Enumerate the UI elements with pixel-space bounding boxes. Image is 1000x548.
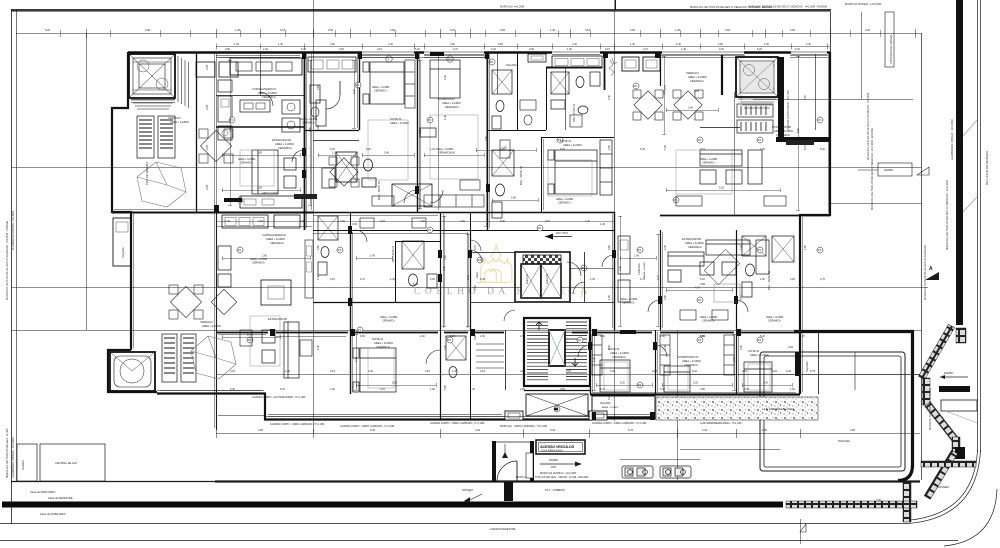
svg-text:1,60: 1,60 [444, 345, 447, 350]
svg-text:PASSEIO: PASSEIO [462, 488, 473, 492]
svg-text:0,15: 0,15 [330, 278, 335, 281]
chain band bottom [786, 501, 917, 508]
svg-text:P4: P4 [674, 198, 678, 202]
svg-text:5,20: 5,20 [415, 48, 420, 51]
svg-text:5,20: 5,20 [692, 369, 698, 373]
svg-text:P4: P4 [578, 338, 582, 342]
svg-text:CERAMICA: CERAMICA [690, 79, 704, 83]
chain vert 1 [922, 378, 930, 405]
svg-text:1,40: 1,40 [470, 388, 475, 391]
svg-text:25%: 25% [551, 465, 557, 469]
svg-text:5,20: 5,20 [772, 369, 778, 373]
svg-text:MURO ALV. DE TIJOLOS DE GES C/: MURO ALV. DE TIJOLOS DE GES C/ VEDACAO [924, 245, 927, 300]
jacuzzi A [129, 54, 175, 109]
svg-text:GUIA REBAIXADA: GUIA REBAIXADA [541, 449, 563, 453]
svg-text:ESTAR/JANTAR: ESTAR/JANTAR [682, 237, 701, 241]
stairs [524, 318, 590, 416]
svg-text:2,40: 2,40 [664, 245, 667, 250]
svg-text:1,60: 1,60 [567, 48, 572, 51]
svg-text:MURO DA VIZINHO - H=2,20M: MURO DA VIZINHO - H=2,20M [540, 471, 576, 475]
AC band A [294, 194, 317, 199]
vertical text box top right [885, 12, 894, 67]
svg-text:3,20: 3,20 [353, 89, 356, 94]
extra door arcs [355, 230, 367, 242]
svg-text:A: A [929, 266, 933, 272]
lixeira box [17, 444, 37, 481]
svg-text:TERRACO: TERRACO [686, 71, 699, 75]
car 2 [660, 466, 691, 478]
svg-text:3,40: 3,40 [475, 428, 481, 432]
svg-text:MURO ALV. DE TIJOLOS DE GES C/: MURO ALV. DE TIJOLOS DE GES C/ VEDACAO -… [945, 180, 949, 250]
svg-text:2,40: 2,40 [247, 334, 252, 337]
svg-text:5,20: 5,20 [491, 48, 496, 51]
svg-text:3,60: 3,60 [450, 152, 455, 155]
svg-text:GUARDA CORPO - ALV/TRAD/VIDRO: GUARDA CORPO - ALV/TRAD/VIDRO - H=1,10M [252, 396, 305, 399]
svg-text:3,40: 3,40 [688, 107, 693, 110]
thick wall x720 [721, 55, 723, 95]
svg-text:2,40: 2,40 [390, 278, 395, 281]
svg-text:2,80: 2,80 [520, 388, 525, 391]
svg-text:WC SUITE 01: WC SUITE 01 [391, 245, 395, 262]
svg-text:3,60: 3,60 [502, 147, 507, 150]
svg-text:0,15: 0,15 [230, 369, 236, 373]
svg-text:1,40: 1,40 [225, 220, 230, 223]
svg-text:5,40: 5,40 [480, 278, 485, 281]
black bar rampa [939, 386, 970, 392]
svg-text:MURO DA VIZINHO - H=2,20M: MURO DA VIZINHO - H=2,20M [845, 2, 881, 6]
svg-text:1,40: 1,40 [660, 335, 665, 338]
svg-text:SACADA: SACADA [506, 63, 517, 67]
dining set A [199, 129, 233, 163]
svg-text:ALAMBRADO VIZINHO - H=1,80M: ALAMBRADO VIZINHO - H=1,80M [950, 120, 954, 160]
svg-text:5,40: 5,40 [660, 388, 665, 391]
svg-text:COZINHA/SERVICO: COZINHA/SERVICO [262, 233, 286, 237]
svg-text:0,15: 0,15 [585, 28, 591, 32]
svg-text:0,15: 0,15 [700, 148, 705, 151]
svg-text:1,60: 1,60 [760, 148, 765, 151]
svg-text:3,40: 3,40 [619, 266, 622, 271]
section line v800 bottom [800, 519, 802, 544]
chain diag 2 [925, 402, 959, 443]
svg-text:0,15: 0,15 [425, 369, 431, 373]
svg-text:CERAMICA: CERAMICA [438, 152, 451, 155]
svg-text:P4: P4 [238, 248, 242, 252]
svg-text:CERAMICA: CERAMICA [270, 241, 284, 245]
svg-text:0,15: 0,15 [652, 369, 658, 373]
svg-text:BAC - SUITE 02: BAC - SUITE 02 [519, 166, 523, 185]
svg-text:AREA + ILUMIN.: AREA + ILUMIN. [170, 120, 190, 124]
svg-text:1,60: 1,60 [257, 187, 262, 190]
svg-text:P4: P4 [758, 338, 762, 342]
svg-text:1,60: 1,60 [804, 245, 807, 250]
bath D wall [350, 212, 352, 230]
svg-text:AREA + ILUMIN.: AREA + ILUMIN. [202, 324, 222, 328]
svg-text:0,15: 0,15 [742, 369, 748, 373]
svg-text:1,40: 1,40 [600, 222, 606, 226]
svg-text:1,40: 1,40 [234, 43, 239, 46]
svg-text:LAJE IMPERMEABILIZADA - H=1,10: LAJE IMPERMEABILIZADA - H=1,10M [700, 422, 742, 425]
svg-text:1,60: 1,60 [430, 388, 435, 391]
svg-text:0,15: 0,15 [380, 388, 385, 391]
left wall jogs [112, 52, 131, 350]
svg-text:2,40: 2,40 [263, 48, 268, 51]
black square [955, 447, 965, 459]
svg-text:P4: P4 [634, 84, 638, 88]
svg-text:0,15: 0,15 [377, 48, 382, 51]
section flag bottom [800, 524, 806, 532]
svg-text:0,15: 0,15 [605, 48, 610, 51]
svg-text:3,40: 3,40 [355, 357, 358, 362]
svg-text:BAC - SUITE 01: BAC - SUITE 01 [573, 103, 576, 122]
svg-text:1,60: 1,60 [330, 388, 335, 391]
svg-text:3,60: 3,60 [328, 28, 334, 32]
svg-text:3,60: 3,60 [663, 90, 666, 95]
svg-text:3,60: 3,60 [330, 43, 335, 46]
terrace walls [794, 330, 913, 333]
svg-text:CERAMICA: CERAMICA [622, 302, 635, 305]
svg-text:0,60: 0,60 [258, 220, 263, 223]
svg-text:ELEV.02: ELEV.02 [545, 273, 549, 284]
left balcony strip [113, 218, 131, 266]
balcony bottom center [592, 396, 655, 419]
svg-text:1,60: 1,60 [520, 335, 525, 338]
svg-text:AREA + ILUMIN.: AREA + ILUMIN. [442, 101, 462, 105]
svg-text:3,60: 3,60 [390, 28, 396, 32]
svg-text:MURO ALV. DE TIJOLOS DE GES C/: MURO ALV. DE TIJOLOS DE GES C/ VEDACAO -… [867, 93, 870, 160]
svg-text:ARCO COND: ARCO COND [296, 196, 310, 199]
top neighbour text [690, 2, 881, 9]
svg-text:AREA + ILUMIN.: AREA + ILUMIN. [374, 341, 394, 345]
svg-text:5,40: 5,40 [640, 148, 645, 151]
svg-text:0,60: 0,60 [360, 335, 365, 338]
svg-text:SUITE 01: SUITE 01 [372, 337, 384, 341]
shower bac suite01 A [336, 152, 376, 187]
wall y302 left [313, 302, 440, 304]
chain diag 3 [924, 450, 957, 499]
svg-text:SACADA: SACADA [600, 401, 611, 405]
door arc [292, 150, 304, 162]
svg-text:AREA + ILUMIN.: AREA + ILUMIN. [610, 351, 630, 355]
svg-text:5,40: 5,40 [301, 48, 306, 51]
north arrow [545, 236, 572, 238]
svg-text:P4: P4 [818, 248, 822, 252]
svg-text:MURO ALV - VIDRO LAMINADO - H=: MURO ALV - VIDRO LAMINADO - H=1,10M [500, 425, 547, 428]
svg-text:3,40: 3,40 [388, 43, 393, 46]
svg-text:4,70: 4,70 [800, 335, 805, 338]
svg-text:0,15: 0,15 [740, 295, 743, 300]
interior dim line y374 [216, 374, 920, 376]
svg-text:AREA + ILUMIN.: AREA + ILUMIN. [563, 143, 583, 147]
svg-text:SUITE 02: SUITE 02 [748, 349, 760, 353]
circled refs [386, 56, 392, 62]
svg-text:HALL: HALL [475, 271, 479, 278]
wall y241 wc [395, 241, 440, 243]
svg-text:P4: P4 [428, 228, 432, 232]
bath B2 fixtures [551, 72, 600, 114]
deck stipple [656, 397, 818, 420]
svg-text:P4: P4 [698, 338, 702, 342]
svg-text:1,40: 1,40 [681, 48, 686, 51]
svg-text:4,20: 4,20 [786, 369, 792, 373]
internal dim lines [222, 155, 300, 157]
svg-text:4,70: 4,70 [640, 278, 645, 281]
suite B center bed [548, 140, 612, 195]
street corner arc [908, 450, 981, 524]
loungers C [737, 104, 773, 133]
svg-text:5,40: 5,40 [740, 245, 743, 250]
svg-text:MURO ALV. DE TIJOLOS DE GES C/: MURO ALV. DE TIJOLOS DE GES C/ VEDACAO -… [870, 128, 874, 210]
gate pillar [504, 482, 513, 501]
svg-text:1,40: 1,40 [630, 43, 635, 46]
bed dorm A [430, 60, 460, 98]
svg-text:CERAMICA: CERAMICA [252, 262, 265, 265]
car 1 [622, 466, 653, 478]
frames boxes [622, 57, 639, 71]
svg-text:5,40: 5,40 [500, 220, 505, 223]
lower terrace D [110, 352, 155, 391]
svg-text:AREA + ILUMIN.: AREA + ILUMIN. [266, 237, 286, 241]
section line h287 [11, 287, 928, 289]
wall y212 extension [313, 212, 614, 214]
svg-text:3,40: 3,40 [593, 357, 596, 362]
svg-text:CERAMICA: CERAMICA [445, 105, 459, 109]
svg-text:CERAMICA: CERAMICA [374, 90, 387, 93]
svg-text:2,80: 2,80 [744, 388, 749, 391]
svg-text:P4: P4 [338, 248, 342, 252]
svg-text:P4: P4 [448, 338, 452, 342]
circled refs [229, 117, 235, 123]
lot wall bottom [11, 481, 215, 483]
svg-text:MURO ALV. DE TIJOLOS DE GES C/: MURO ALV. DE TIJOLOS DE GES C/ VEDACAO -… [748, 6, 827, 9]
svg-text:2,40: 2,40 [317, 345, 320, 350]
kitchen D counters [222, 215, 268, 228]
svg-text:5,40: 5,40 [370, 428, 376, 432]
svg-text:SUITE 02: SUITE 02 [390, 117, 402, 121]
svg-text:ACESSO PEDESTRE: ACESSO PEDESTRE [490, 527, 516, 531]
access label box [536, 440, 585, 454]
svg-text:3,60: 3,60 [317, 245, 320, 250]
svg-text:2,80: 2,80 [511, 197, 516, 200]
loungers D [162, 334, 196, 382]
svg-text:7,80: 7,80 [258, 428, 264, 432]
door jambs [302, 148, 306, 156]
svg-text:0,80: 0,80 [225, 48, 230, 51]
svg-text:0,15: 0,15 [719, 48, 724, 51]
svg-text:COZINHA/SERVICO: COZINHA/SERVICO [252, 87, 276, 91]
svg-text:1,40: 1,40 [452, 369, 458, 373]
svg-text:3,60: 3,60 [352, 222, 358, 226]
svg-text:MURO ALV. DE TIJOLOS DE GES C/: MURO ALV. DE TIJOLOS DE GES C/ VEDACAO -… [6, 221, 9, 300]
svg-text:2,80: 2,80 [474, 285, 477, 290]
suite01 D [350, 330, 352, 394]
svg-text:ESTAR/JANTAR: ESTAR/JANTAR [268, 317, 287, 321]
svg-text:1,40: 1,40 [370, 255, 375, 258]
svg-text:AREA + ILUMIN.: AREA + ILUMIN. [750, 353, 770, 357]
svg-text:4,70: 4,70 [453, 48, 458, 51]
svg-text:1,40: 1,40 [550, 28, 556, 32]
section A marker [925, 272, 939, 280]
bottom wall left [157, 394, 592, 420]
svg-text:5,20: 5,20 [608, 395, 611, 400]
svg-text:0,15: 0,15 [450, 28, 456, 32]
svg-text:MURO ALV. H=2,20M: MURO ALV. H=2,20M [500, 6, 524, 9]
svg-text:2,40: 2,40 [676, 43, 681, 46]
svg-text:3,60: 3,60 [450, 43, 455, 46]
main divider wall y212 [112, 212, 313, 214]
svg-text:5,70: 5,70 [628, 428, 634, 432]
chamfer marks [963, 120, 977, 136]
svg-text:5,40: 5,40 [550, 428, 556, 432]
svg-text:1,60: 1,60 [460, 220, 465, 223]
chain horiz right [921, 461, 976, 467]
svg-text:CERAMICA: CERAMICA [382, 320, 395, 323]
long line y330 [11, 330, 921, 332]
svg-text:4,70: 4,70 [695, 287, 700, 290]
svg-text:CERAMICA: CERAMICA [302, 122, 315, 125]
chain squares top [956, 328, 966, 343]
svg-text:AREA + ILUMIN.: AREA + ILUMIN. [275, 142, 295, 146]
svg-text:1,40: 1,40 [675, 28, 681, 32]
black blocks balcony [592, 412, 596, 420]
svg-text:RUA JOAO DE MORAES: RUA JOAO DE MORAES [985, 151, 989, 185]
svg-text:5,20: 5,20 [700, 278, 705, 281]
svg-text:4,20: 4,20 [788, 345, 794, 349]
svg-text:1,40: 1,40 [444, 115, 447, 120]
svg-text:ACESSO VEICULOS: ACESSO VEICULOS [540, 444, 575, 449]
right wall [800, 52, 830, 394]
sofa set C [700, 150, 762, 184]
svg-text:2,40: 2,40 [285, 369, 291, 373]
wc fixtures 487-520 y150-230 [492, 150, 514, 218]
armchairs top [196, 62, 215, 77]
bath B fixtures [487, 52, 547, 131]
svg-text:4,05: 4,05 [205, 144, 209, 150]
svg-text:3,60: 3,60 [430, 278, 435, 281]
wardrobe strips [405, 60, 734, 375]
svg-text:AREA + ILUMIN.: AREA + ILUMIN. [643, 261, 646, 278]
svg-text:PISCINA: PISCINA [838, 439, 850, 443]
right rooms band fixtures [742, 236, 794, 297]
svg-text:0,15: 0,15 [545, 220, 550, 223]
svg-text:CERAMICA: CERAMICA [768, 320, 781, 323]
suite03 [590, 386, 592, 394]
svg-text:ALAMBRADO VIZINHO - H=1,80M: ALAMBRADO VIZINHO - H=1,80M [11, 438, 15, 478]
svg-text:5,40: 5,40 [413, 282, 419, 286]
svg-text:2,80: 2,80 [145, 28, 151, 32]
pool [760, 352, 905, 471]
appliances left [218, 80, 232, 92]
svg-text:RAMPA: RAMPA [549, 458, 558, 462]
street double line [977, 0, 979, 452]
glp box [40, 444, 105, 481]
svg-text:5,20: 5,20 [820, 148, 825, 151]
svg-text:3,40: 3,40 [763, 382, 768, 385]
svg-text:5,20: 5,20 [280, 388, 285, 391]
svg-text:COZINHA: COZINHA [637, 263, 641, 275]
section line h167 [11, 167, 921, 169]
svg-text:AREA + ILUMIN.: AREA + ILUMIN. [602, 406, 619, 409]
svg-text:1,40: 1,40 [278, 43, 283, 46]
svg-text:4,70: 4,70 [600, 388, 605, 391]
svg-text:AREA + ILUMIN.: AREA + ILUMIN. [390, 121, 410, 125]
svg-text:5,20: 5,20 [610, 369, 616, 373]
svg-text:1,60: 1,60 [420, 220, 425, 223]
svg-text:2,80: 2,80 [608, 145, 611, 150]
svg-text:CERAMICA: CERAMICA [702, 162, 715, 165]
svg-text:LAJE IMPERMEABILIZADA: LAJE IMPERMEABILIZADA [762, 407, 795, 411]
svg-text:CERAMICA: CERAMICA [558, 202, 571, 205]
svg-text:1,40: 1,40 [634, 255, 639, 258]
jacuzzi C [736, 57, 778, 97]
svg-text:SACADA: SACADA [121, 247, 125, 258]
svg-text:GUARDA CORPO - VIDRO LAMINADO: GUARDA CORPO - VIDRO LAMINADO - H=1,10M [340, 425, 394, 428]
svg-text:AREA + ILUMIN.: AREA + ILUMIN. [774, 129, 794, 133]
svg-text:GUARDA CORPO - VIDRO LAMINADO: GUARDA CORPO - VIDRO LAMINADO - H=1,10M [592, 422, 646, 425]
svg-text:AREA + ILUMIN.: AREA + ILUMIN. [688, 75, 708, 79]
svg-text:1,40: 1,40 [430, 148, 435, 151]
svg-text:4,70: 4,70 [804, 145, 807, 150]
chain vert 3 [903, 481, 911, 522]
svg-text:P4: P4 [538, 226, 542, 230]
svg-text:1,40: 1,40 [235, 28, 241, 32]
svg-text:P4: P4 [248, 338, 252, 342]
svg-text:1,60: 1,60 [760, 278, 765, 281]
appliances D [218, 246, 231, 270]
island D [261, 280, 291, 305]
svg-text:MURO DE TIJOLOS GES - H=2,20M: MURO DE TIJOLOS GES - H=2,20M [929, 389, 932, 430]
svg-text:5,40: 5,40 [664, 145, 667, 150]
svg-text:3,40: 3,40 [384, 152, 389, 155]
rampa arrow center [540, 463, 576, 465]
svg-text:3,40: 3,40 [444, 75, 447, 80]
svg-text:CERAMICA: CERAMICA [702, 320, 715, 323]
plant [609, 58, 617, 76]
curb bar [956, 0, 963, 325]
svg-text:Faixa de PERCURSO: Faixa de PERCURSO [30, 490, 55, 494]
svg-text:ESTAR/JANTAR: ESTAR/JANTAR [272, 138, 291, 142]
chain diag 1 [918, 324, 954, 379]
thick wall 778-784 [778, 57, 784, 140]
svg-text:GUARDA CORPO - VIDRO LAMINADO: GUARDA CORPO - VIDRO LAMINADO - H=1,10M [270, 423, 324, 426]
svg-text:P4: P4 [638, 248, 642, 252]
svg-text:0,15: 0,15 [380, 220, 385, 223]
svg-text:CERAMICA: CERAMICA [240, 162, 253, 165]
svg-text:P4: P4 [478, 258, 482, 262]
elevator shafts [523, 255, 561, 264]
svg-text:ALAMBRADO VIZINHO - H=1,80M: ALAMBRADO VIZINHO - H=1,80M [12, 211, 15, 250]
svg-text:SACADA: SACADA [805, 361, 809, 372]
dining sets C [633, 90, 703, 120]
svg-text:0,60: 0,60 [560, 388, 565, 391]
svg-text:3,40: 3,40 [572, 43, 577, 46]
svg-text:1,60: 1,60 [480, 335, 485, 338]
hall fixtures [310, 85, 320, 103]
doors [404, 190, 417, 203]
svg-text:5,20: 5,20 [804, 95, 807, 100]
svg-text:AREA + ILUMIN.: AREA + ILUMIN. [258, 91, 278, 95]
svg-text:3,40: 3,40 [702, 428, 708, 432]
dining set D [169, 285, 237, 319]
pool area dims [678, 374, 920, 376]
svg-text:4,70: 4,70 [657, 275, 660, 280]
svg-text:CERAMICA: CERAMICA [688, 245, 702, 249]
thin line y523 [0, 523, 908, 525]
svg-text:3,60: 3,60 [630, 28, 636, 32]
svg-text:5,20: 5,20 [45, 28, 51, 32]
svg-text:ARCO COND.: ARCO COND. [262, 191, 279, 195]
svg-text:CONSTRUCAO VIZINHA: CONSTRUCAO VIZINHA [889, 34, 893, 64]
svg-text:MURO ALV. DE TIJOLOS DE GES -: MURO ALV. DE TIJOLOS DE GES - H=2M [5, 429, 9, 478]
